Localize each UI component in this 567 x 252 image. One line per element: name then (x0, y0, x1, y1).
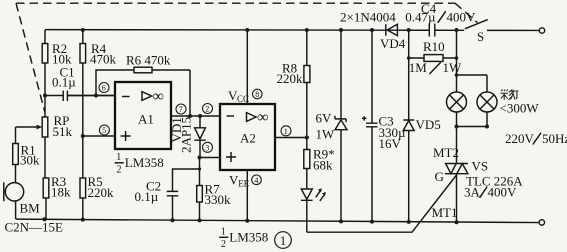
svg-text:18k: 18k (51, 185, 71, 200)
potentiometer RP (16, 113, 73, 178)
svg-text:3: 3 (205, 144, 209, 153)
mechanical link dashed line RP-to-S (16, 3, 478, 112)
node 6 (99, 83, 109, 93)
svg-text:16V: 16V (379, 136, 402, 151)
node 1 (281, 126, 291, 136)
label lamps (500, 101, 540, 116)
lamp branch wires (457, 30, 488, 164)
resistor R7 (197, 158, 231, 221)
wire Vee (246, 170, 248, 221)
lamp 1 (447, 92, 467, 112)
svg-text:470k: 470k (90, 52, 117, 67)
svg-text:2×1N4004: 2×1N4004 (340, 10, 396, 25)
zener diode 6V (316, 30, 347, 222)
wire top supply rail (45, 29, 539, 32)
resistor R9 (304, 138, 335, 190)
svg-text:C2N—15E: C2N—15E (5, 220, 64, 235)
svg-text:1: 1 (116, 152, 121, 163)
svg-text:400V: 400V (447, 10, 477, 25)
label C2N-15E (5, 220, 64, 235)
capacitor C4 (405, 1, 476, 37)
svg-text:2AP15: 2AP15 (179, 117, 194, 153)
resistor R4 (80, 30, 117, 178)
resistor R1 (13, 127, 40, 183)
svg-text:1: 1 (284, 127, 288, 136)
LED (301, 188, 326, 232)
svg-text:BM: BM (20, 201, 41, 216)
op-amp A2 (220, 104, 275, 170)
svg-text:220V: 220V (505, 131, 535, 146)
svg-text:50Hz: 50Hz (542, 131, 567, 146)
microphone BM (4, 182, 40, 219)
node 3 (203, 142, 213, 152)
capacitor C2 (135, 169, 200, 220)
svg-text:400V: 400V (488, 185, 518, 200)
svg-text:7: 7 (179, 105, 183, 114)
node label 1 (figure) (275, 232, 292, 249)
label 1/2 LM358 (A1) (115, 152, 164, 176)
svg-text:1W: 1W (316, 127, 336, 142)
svg-text:R6 470k: R6 470k (126, 53, 171, 68)
node 5 (99, 125, 109, 135)
terminal bottom right (539, 220, 544, 225)
wire A2 plus input (200, 157, 221, 159)
capacitor C3 (362, 30, 406, 222)
svg-text:LM358: LM358 (125, 155, 164, 170)
wire A1 output (171, 115, 220, 117)
svg-text:0.47µ: 0.47µ (405, 10, 436, 25)
svg-text:A1: A1 (138, 112, 154, 127)
switch S (465, 20, 488, 44)
svg-text:G: G (435, 169, 444, 184)
svg-text:68k: 68k (313, 158, 333, 173)
svg-text:8: 8 (255, 90, 259, 99)
svg-text:∞: ∞ (153, 88, 164, 105)
svg-text:2: 2 (221, 239, 226, 250)
lamp 2 (477, 92, 497, 112)
resistor R2 (42, 30, 72, 117)
wire Vcc (246, 30, 248, 104)
terminal top right (539, 28, 544, 33)
svg-text:5: 5 (102, 126, 106, 135)
wire A1 minus input (68, 95, 115, 97)
svg-text:1M: 1M (409, 60, 428, 75)
svg-text:2: 2 (117, 165, 122, 176)
svg-text:1: 1 (221, 227, 226, 238)
op-amp A1 (115, 82, 171, 149)
svg-text:220k: 220k (277, 71, 304, 86)
svg-text:MT2: MT2 (433, 145, 459, 160)
svg-text:4: 4 (254, 176, 258, 185)
resistor R5 (80, 174, 114, 220)
svg-text:220k: 220k (88, 185, 115, 200)
label caideng (Chinese) (501, 89, 519, 100)
capacitor C1 (45, 65, 115, 102)
node 7 (176, 104, 186, 114)
svg-text:1: 1 (280, 233, 287, 248)
node 2 (203, 104, 213, 114)
svg-text:1W: 1W (443, 60, 463, 75)
resistor R6 feedback (96, 53, 190, 117)
label Vcc (228, 88, 249, 104)
svg-text:R10: R10 (423, 39, 445, 54)
svg-text:6V: 6V (316, 111, 333, 126)
svg-text:VS: VS (472, 159, 489, 174)
diode VD4 (340, 10, 406, 52)
svg-text:330k: 330k (205, 192, 232, 207)
svg-text:2: 2 (205, 105, 209, 114)
wire A1 plus input (83, 135, 115, 137)
triac VS (432, 145, 524, 222)
diode VD1 (169, 116, 206, 158)
resistor R3 (43, 174, 71, 219)
node 4 (252, 175, 262, 185)
svg-text:6: 6 (102, 84, 106, 93)
label 220V/50Hz (505, 131, 567, 146)
wire A2 output (275, 137, 307, 139)
svg-text:0.1µ: 0.1µ (135, 189, 159, 204)
wire gate return (307, 175, 457, 233)
svg-text:<300W: <300W (500, 101, 540, 116)
svg-text:MT1: MT1 (432, 205, 458, 220)
svg-text:0.1µ: 0.1µ (52, 75, 76, 90)
resistor R10 (409, 39, 462, 75)
resistor R8 (277, 30, 310, 138)
svg-text:VD5: VD5 (416, 117, 441, 132)
node 8 (252, 89, 262, 99)
svg-text:VD4: VD4 (380, 36, 406, 51)
wire bottom rail (16, 219, 539, 222)
svg-text:30k: 30k (20, 153, 40, 168)
svg-text:51k: 51k (53, 124, 73, 139)
svg-text:LM358: LM358 (229, 230, 268, 245)
svg-text:CC: CC (237, 94, 249, 104)
label 1/2 LM358 (A2) (219, 227, 268, 251)
svg-text:S: S (477, 29, 484, 44)
label Vee (229, 173, 250, 189)
svg-text:3A: 3A (464, 185, 481, 200)
svg-text:A2: A2 (240, 131, 256, 146)
svg-text:EE: EE (238, 178, 249, 188)
diode VD5 (403, 30, 441, 222)
svg-text:∞: ∞ (257, 109, 268, 126)
